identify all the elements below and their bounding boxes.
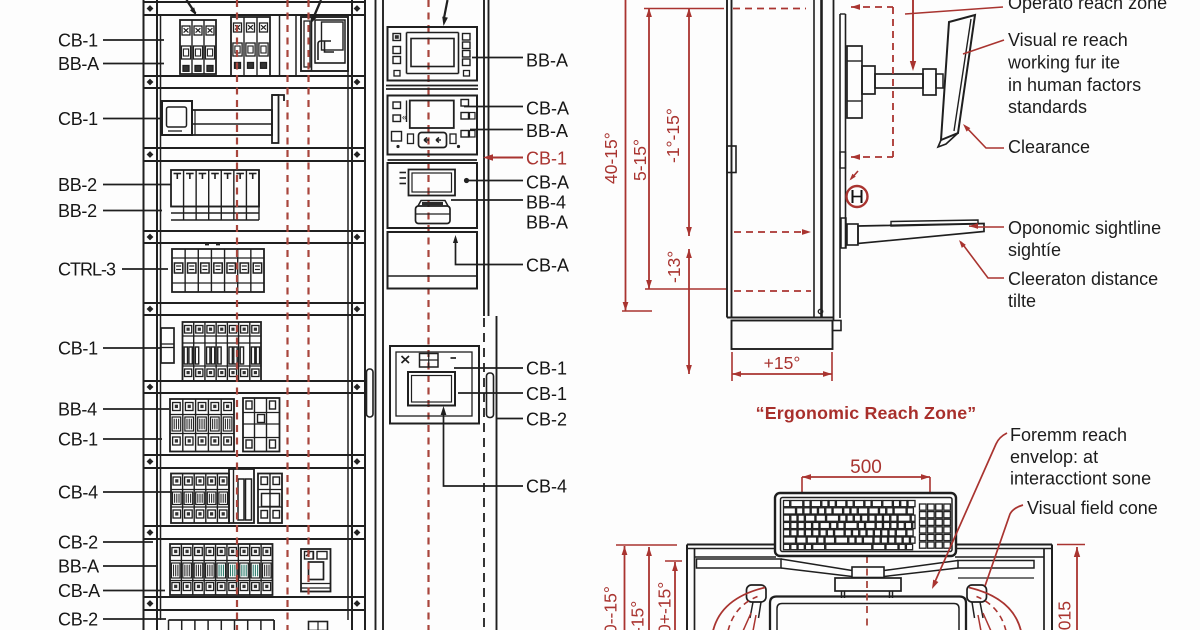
svg-text:BB-2: BB-2	[58, 201, 97, 221]
svg-text:BB-4: BB-4	[526, 193, 566, 213]
svg-text:BB-A: BB-A	[526, 121, 568, 141]
svg-text:0--15°: 0--15°	[601, 586, 621, 630]
svg-text:-1°-15°: -1°-15°	[663, 108, 683, 163]
svg-text:CB-1: CB-1	[58, 109, 98, 129]
svg-text:BB-A: BB-A	[58, 54, 99, 74]
svg-text:standards: standards	[1008, 97, 1087, 117]
svg-text:+15°: +15°	[764, 353, 801, 373]
svg-text:CB-1: CB-1	[58, 339, 98, 359]
svg-text:500: 500	[850, 457, 882, 478]
svg-text:“Ergonomic Reach Zone”: “Ergonomic Reach Zone”	[756, 403, 977, 423]
svg-text:in human factors: in human factors	[1008, 75, 1141, 95]
svg-text:Oponomic sightline: Oponomic sightline	[1008, 218, 1161, 238]
svg-text:Clearance: Clearance	[1008, 137, 1090, 157]
svg-text:5-15°: 5-15°	[630, 139, 650, 181]
svg-text:CB-A: CB-A	[526, 173, 569, 193]
svg-text:CB-1: CB-1	[526, 384, 567, 404]
svg-text:CB-4: CB-4	[526, 477, 567, 497]
svg-text:CB-A: CB-A	[526, 256, 569, 276]
svg-text:CB-4: CB-4	[58, 483, 98, 503]
svg-text:CTRL-3: CTRL-3	[58, 260, 116, 280]
svg-text:CB-2: CB-2	[526, 410, 567, 430]
svg-text:Cleeraton distance: Cleeraton distance	[1008, 269, 1158, 289]
svg-text:BB-A: BB-A	[526, 213, 568, 233]
svg-text:0+-15°: 0+-15°	[655, 582, 675, 630]
svg-text:1015: 1015	[1055, 601, 1075, 630]
svg-text:CB-1: CB-1	[58, 31, 98, 51]
svg-text:CB-A: CB-A	[58, 581, 100, 601]
svg-text:CB-A: CB-A	[526, 99, 569, 119]
svg-text:sightíe: sightíe	[1008, 240, 1061, 260]
svg-text:BB-A: BB-A	[526, 51, 568, 71]
svg-text:Visual re reach: Visual re reach	[1008, 30, 1128, 50]
svg-text:BB-2: BB-2	[58, 175, 97, 195]
svg-text:Foremm reach: Foremm reach	[1010, 425, 1127, 445]
svg-text:-13°: -13°	[664, 251, 684, 283]
svg-text:Operato reach zone: Operato reach zone	[1008, 0, 1167, 13]
svg-text:CB-1: CB-1	[526, 149, 567, 169]
svg-text:working fur ite: working fur ite	[1007, 53, 1120, 73]
svg-text:tilte: tilte	[1008, 291, 1036, 311]
svg-text:envelop: at: envelop: at	[1010, 447, 1098, 467]
svg-text:BB-A: BB-A	[58, 557, 99, 577]
svg-text:Visual field cone: Visual field cone	[1027, 498, 1158, 518]
svg-text:CB-2: CB-2	[58, 610, 98, 630]
svg-text:CB-1: CB-1	[526, 359, 567, 379]
svg-text:interacctiont sone: interacctiont sone	[1010, 469, 1151, 489]
svg-text:CB-1: CB-1	[58, 430, 98, 450]
svg-text:BB-4: BB-4	[58, 400, 97, 420]
svg-text:CB-2: CB-2	[58, 533, 98, 553]
svg-text:«: «	[402, 112, 407, 122]
svg-text:40-15°: 40-15°	[601, 132, 621, 184]
svg-text:-15°: -15°	[628, 601, 648, 630]
